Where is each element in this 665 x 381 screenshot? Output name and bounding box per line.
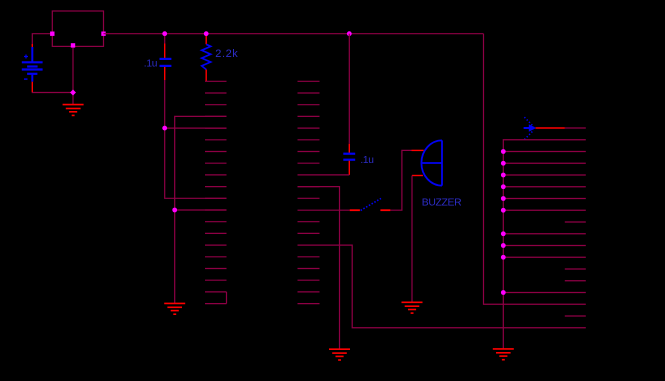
chip U2 left pin stubs (205, 81, 227, 303)
wire U2 pin row 10 to ground G4 (298, 187, 340, 349)
node junction rail at C2 branch (347, 31, 352, 36)
node bus pin 3 (501, 149, 506, 154)
node bus pin 4 (501, 161, 506, 166)
wire node to pin row 12 (175, 209, 227, 211)
ground G2 (164, 303, 185, 314)
switch SW1 left contact (350, 209, 360, 211)
wire pin row 4 down to ground G2 (175, 116, 227, 303)
wire bus to U3 pin 15 (503, 292, 586, 294)
wire bus to U3 pin 8 (503, 209, 586, 211)
pin marker box left (50, 32, 54, 36)
svg-text:.1u: .1u (144, 59, 157, 70)
battery BT1 (22, 44, 43, 92)
wire arrow to U3 pin 1 (536, 127, 565, 129)
arrow input symbol at U3 pin 1 (524, 117, 537, 139)
wire box left pin to battery top corner (32, 34, 52, 46)
wire C2 bottom to U2 pin row 9 (298, 174, 350, 176)
pin marker box right (101, 32, 105, 36)
regulator U1 body box (52, 11, 103, 46)
wire box bottom pin down to ground (72, 46, 74, 104)
switch SW1 lever (361, 198, 381, 210)
svg-text:2.2k: 2.2k (215, 48, 238, 60)
chip U3 pin stubs (565, 128, 586, 316)
wire buzzer bottom lead down to ground G3 (411, 176, 413, 303)
svg-text:BUZZER: BUZZER (422, 197, 462, 208)
wire bus to U3 pin 6 (503, 186, 586, 188)
ground G5 (493, 349, 514, 360)
node bus pin 12 (501, 255, 506, 260)
wire bus top elbow to U3 pin 2 (503, 140, 586, 349)
buzzer LS1 (412, 140, 443, 185)
svg-text:.1u: .1u (360, 155, 373, 166)
node junction on C1 line (162, 126, 167, 131)
wire U2 pins 19-20 short link (226, 292, 228, 304)
wire bus to U3 pin 12 (503, 256, 586, 258)
resistor R1 2.2k (202, 34, 211, 82)
node bus pin 8 (501, 208, 506, 213)
chip U2 right pin stubs (298, 81, 320, 303)
node junction rail at C1 (162, 31, 167, 36)
wire rail down right side to U3 pin 16 (484, 34, 586, 305)
capacitor C2 .1u from rail (343, 34, 355, 175)
node bus pin 6 (501, 184, 506, 189)
node bus pin 11 (501, 243, 506, 248)
wire bus to U3 pin 10 (503, 233, 586, 235)
pin marker box bottom (71, 43, 75, 47)
ground G4 (329, 349, 350, 360)
node junction on ground line (172, 208, 177, 213)
wire bus to U3 pin 11 (503, 245, 586, 247)
node junction rail at R1 (204, 31, 209, 36)
node junction battery/box/ground (70, 90, 76, 96)
ground G3 (402, 302, 423, 313)
wire battery bottom to ground junction (32, 91, 73, 94)
node bus pin 15 (501, 290, 506, 295)
node bus pin 5 (501, 173, 506, 178)
wire bus to U3 pin 7 (503, 198, 586, 200)
wire bus to U3 pin 3 (503, 151, 586, 153)
wire U2 pin row 12 to switch (298, 209, 350, 211)
node bus pin 10 (501, 231, 506, 236)
wire C1 bottom to pin rows 5 and 11 (165, 80, 227, 198)
capacitor C1 .1u (160, 34, 172, 80)
ground G1 (63, 105, 84, 116)
switch SW1 right contact (380, 209, 390, 211)
wire bus to U3 pin 5 (503, 174, 586, 176)
wire node to pin row 5 (165, 127, 227, 129)
wire U2 pin row 15 to U3 bottom row (298, 245, 586, 328)
wire switch right up to buzzer top lead (390, 150, 411, 210)
wire bus to U3 pin 4 (503, 162, 586, 164)
node bus pin 7 (501, 196, 506, 201)
wire top power rail (104, 33, 484, 35)
